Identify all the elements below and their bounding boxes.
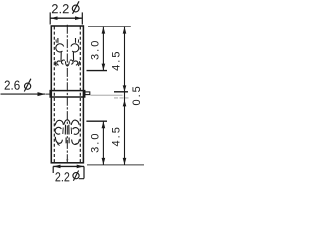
svg-text:2.2: 2.2 (55, 169, 70, 184)
bottom dim arrowheads (54, 165, 61, 169)
top dimension line (50, 17, 82, 19)
inner bore dashed line right (79, 27, 81, 163)
bottom extension bars (52, 166, 54, 173)
lead stub right of disc (85, 92, 90, 95)
bottom dimension 2.2 dia: dim line (53, 165, 84, 167)
coil top-left (55, 38, 65, 66)
coil top-right (70, 38, 80, 66)
phi symbol left (24, 79, 31, 92)
center flange disc 2.6 dia (50, 91, 84, 97)
top right extension line (88, 26, 131, 28)
svg-text:2.6: 2.6 (4, 78, 20, 93)
3.0 top tick (87, 70, 108, 72)
3.0 bottom tick (86, 120, 107, 122)
center axis line (66, 25, 68, 163)
coil top center marks (65, 61, 69, 66)
coil bottom: top arcs (55, 120, 79, 146)
0.5 tick upper (114, 91, 128, 93)
svg-text:3.0: 3.0 (89, 39, 101, 60)
center lead end blob at bottom edge (66, 159, 68, 162)
4.5 dim line (full) (124, 27, 126, 165)
coil bottom: main loops (55, 127, 61, 134)
inner bore dashed line left (53, 27, 55, 163)
faint center line to right (91, 94, 123, 96)
svg-text:0.5: 0.5 (131, 84, 143, 105)
right bar foot (79, 178, 84, 180)
bottom right extension line (87, 164, 144, 166)
svg-text:4.5: 4.5 (111, 125, 123, 146)
svg-text:2.2: 2.2 (51, 1, 69, 16)
coil bottom: center strokes (64, 125, 66, 135)
3.0 bottom dim line (102, 121, 104, 165)
coil bottom: lower hooks (55, 137, 62, 144)
svg-text:4.5: 4.5 (111, 50, 123, 71)
top dimension 2.2 dia: extension bars (49, 12, 51, 24)
top dim arrowheads (51, 16, 58, 20)
svg-text:3.0: 3.0 (90, 132, 102, 153)
3.0 top dim line (102, 27, 104, 71)
body outline (51, 26, 83, 163)
phi symbol top (72, 1, 79, 14)
0.5 tick lower (faint) (114, 97, 129, 99)
2.6 dia leader line (1, 93, 46, 95)
phi symbol bottom (73, 171, 79, 181)
